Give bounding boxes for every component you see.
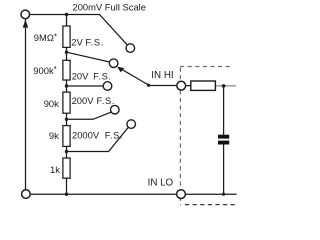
wire: wiper pivot to IN HI terminal — [149, 85, 178, 87]
wire: vertical to input capacitance — [223, 86, 225, 194]
arrowhead on left input wire — [23, 19, 29, 27]
resistor: meter input resistance — [191, 81, 216, 90]
switch contact: 2V range — [109, 59, 118, 68]
terminal: HI input (top left) — [21, 10, 30, 19]
wire: IN HI terminal to input resistor — [186, 85, 191, 87]
svg-text:200VF.S.: 200VF.S. — [72, 95, 115, 106]
junction dot: capacitor bottom node — [222, 193, 225, 196]
svg-text:90k: 90k — [44, 98, 59, 109]
svg-text:9MΩ*: 9MΩ* — [34, 32, 57, 43]
terminal: LO input (bottom left) — [22, 190, 31, 199]
wire: switch wiper arm — [121, 69, 149, 85]
svg-text:IN LO: IN LO — [148, 178, 174, 189]
wire: bottom rail from LO terminal to meter common — [30, 193, 236, 195]
svg-text:900k*: 900k* — [33, 65, 56, 76]
wire: left vertical from bottom terminal up to top terminal — [25, 19, 27, 190]
wire: tap to 20V contact — [67, 85, 106, 87]
resistor R1 9M ohm — [63, 26, 70, 47]
junction dot: 90k/9k tap — [65, 118, 68, 121]
wire: divider chain vertical segments — [66, 15, 68, 195]
svg-text:IN HI: IN HI — [151, 70, 173, 81]
resistor R2 900k — [63, 60, 70, 80]
arrowhead on switch wiper — [117, 67, 124, 73]
junction dot: capacitor top node — [222, 84, 226, 88]
junction dot: divider bottom — [65, 193, 68, 196]
switch contact: 2000V range — [127, 120, 136, 129]
resistor R4 9k — [63, 126, 70, 147]
junction dot: wiper pivot — [147, 84, 150, 87]
switch contact: 200mV range — [126, 44, 135, 53]
svg-text:200mV Full Scale: 200mV Full Scale — [73, 1, 146, 12]
wire: top rail from HI input terminal to 200mV contact — [30, 15, 128, 46]
svg-text:9k: 9k — [49, 130, 59, 141]
svg-text:2VF.S.: 2VF.S. — [71, 37, 104, 48]
junction dot: divider top — [65, 13, 68, 16]
switch contact: 20V range — [103, 82, 112, 91]
dashed boundary of meter input (bottom) — [185, 204, 236, 206]
svg-text:1k: 1k — [50, 164, 60, 175]
junction dot: 9k/1k tap — [65, 150, 68, 153]
terminal: IN LO — [177, 190, 186, 199]
resistor R3 90k — [63, 92, 70, 113]
wire: tap to 200V contact — [67, 112, 113, 120]
terminal: IN HI — [177, 81, 186, 90]
switch contact: 200V range — [111, 105, 120, 114]
dashed boundary of meter input (top) — [180, 66, 232, 68]
capacitor: meter input capacitance — [218, 135, 229, 145]
wire: tap to 2000V contact — [67, 127, 129, 152]
svg-text:2000VF.S.: 2000VF.S. — [72, 129, 123, 140]
resistor R5 1k — [63, 158, 70, 178]
junction dot: 900k/90k tap — [65, 84, 68, 87]
dashed boundary of meter input (left) — [179, 68, 181, 206]
wire: tap to 2V contact — [67, 52, 111, 62]
wire: de-emphasized continuation right of input resistor — [215, 85, 236, 87]
svg-text:20VF.S.: 20VF.S. — [72, 71, 112, 82]
junction dot: 9M/900k tap — [65, 51, 68, 54]
